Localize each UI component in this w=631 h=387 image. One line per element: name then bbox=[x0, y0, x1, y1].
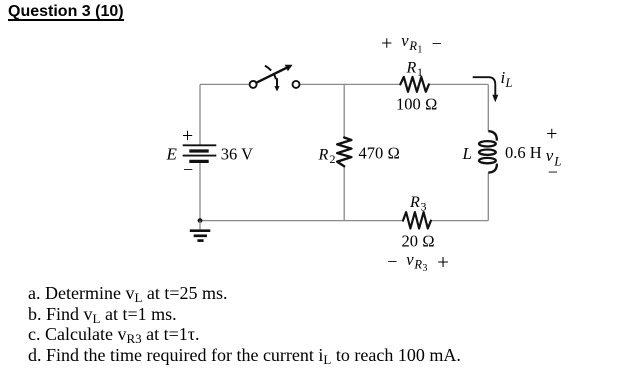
battery E bbox=[183, 145, 217, 161]
label + (battery) bbox=[182, 125, 193, 147]
node A (junction dot) bbox=[198, 218, 203, 223]
svg-text:R: R bbox=[408, 39, 417, 53]
label R3 bbox=[409, 194, 427, 214]
svg-text:0.6 H: 0.6 H bbox=[505, 143, 542, 162]
wire bottom-left bbox=[200, 220, 403, 222]
wire R2 branch upper bbox=[343, 84, 345, 137]
label 470 ohm bbox=[359, 144, 401, 163]
label + vR1 - bbox=[381, 31, 442, 55]
svg-text:R: R bbox=[413, 257, 422, 271]
wire top-middle bbox=[299, 83, 400, 85]
svg-text:E: E bbox=[166, 145, 178, 164]
svg-text:v: v bbox=[401, 31, 409, 50]
svg-text:R: R bbox=[318, 147, 329, 164]
svg-text:v: v bbox=[406, 250, 414, 269]
label - (vL) bbox=[548, 162, 558, 182]
svg-text:100 Ω: 100 Ω bbox=[396, 95, 438, 114]
svg-text:R: R bbox=[409, 194, 420, 211]
label 36 V bbox=[221, 145, 253, 164]
svg-text:L: L bbox=[462, 144, 472, 163]
svg-text:+: + bbox=[182, 125, 193, 147]
svg-text:1: 1 bbox=[417, 65, 423, 79]
label E bbox=[166, 145, 178, 164]
label L bbox=[462, 144, 472, 163]
resistor R1 bbox=[400, 77, 429, 92]
inductor L bbox=[479, 131, 497, 172]
wire bottom-right bbox=[431, 220, 488, 222]
svg-text:2: 2 bbox=[330, 152, 336, 166]
label 20 ohm bbox=[402, 232, 435, 251]
label vL bbox=[546, 146, 562, 168]
svg-text:+: + bbox=[381, 33, 392, 55]
svg-text:L: L bbox=[505, 76, 513, 90]
label iL bbox=[501, 68, 513, 90]
wire top-right bbox=[429, 83, 488, 85]
label R1 bbox=[406, 60, 424, 80]
svg-text:−: − bbox=[183, 159, 193, 179]
svg-text:3: 3 bbox=[422, 263, 427, 274]
current arrow iL bbox=[473, 77, 499, 102]
wire top-left bbox=[200, 83, 250, 85]
switch S1 bbox=[250, 65, 300, 92]
wire left-upper bbox=[199, 84, 201, 144]
label - vR3 + bbox=[387, 250, 449, 274]
svg-text:36 V: 36 V bbox=[221, 145, 253, 164]
resistor R3 bbox=[403, 212, 431, 228]
svg-text:20 Ω: 20 Ω bbox=[402, 232, 435, 251]
ground bbox=[190, 221, 211, 241]
label + (vL) bbox=[546, 123, 557, 145]
svg-text:R: R bbox=[406, 60, 417, 77]
wire right-lower bbox=[487, 173, 489, 221]
svg-text:+: + bbox=[437, 250, 449, 274]
label - (battery) bbox=[183, 159, 193, 179]
wire left-lower bbox=[199, 163, 201, 221]
wire R2 branch lower bbox=[343, 166, 345, 220]
wire right-upper bbox=[487, 84, 489, 131]
svg-text:1: 1 bbox=[417, 44, 422, 55]
svg-text:−: − bbox=[387, 251, 397, 271]
svg-text:+: + bbox=[546, 123, 557, 145]
svg-text:3: 3 bbox=[421, 199, 427, 213]
svg-text:−: − bbox=[548, 162, 558, 182]
label 0.6 H bbox=[505, 143, 542, 162]
resistor R2 bbox=[337, 138, 351, 167]
svg-text:−: − bbox=[432, 34, 442, 54]
label 100 ohm bbox=[396, 95, 438, 114]
label R2 bbox=[318, 147, 336, 167]
svg-text:470 Ω: 470 Ω bbox=[359, 144, 401, 163]
